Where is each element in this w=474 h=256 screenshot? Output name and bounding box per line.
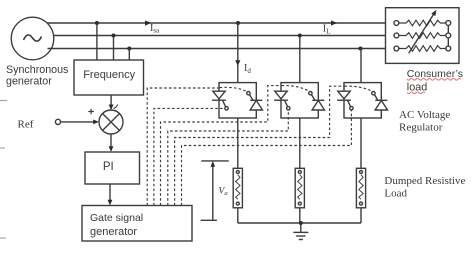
svg-text:Isa: Isa	[150, 23, 160, 35]
junction: line3 to module 3	[359, 47, 363, 51]
gate wire g4: GSG to module2 left gate	[168, 110, 288, 205]
junction: line3 tap to frequency	[127, 47, 131, 51]
wire: R1 to bus	[237, 208, 239, 223]
wire: PI to gate signal generator	[109, 184, 111, 200]
terminal: Ref input	[55, 119, 60, 124]
wire: R3 to bus	[360, 208, 362, 223]
gate wire g5: GSG to module3 right gate	[175, 86, 344, 205]
terminal circles right	[446, 21, 451, 26]
wire: line1 down to module 1	[237, 23, 239, 83]
module box 2	[281, 83, 318, 118]
wire: phase line 3	[48, 48, 395, 50]
bus: dump load common	[238, 222, 361, 224]
svg-text:generator: generator	[90, 226, 137, 238]
consumer load box	[386, 8, 460, 64]
sine symbol	[24, 35, 42, 41]
module box 3	[344, 83, 381, 118]
wire: R2 to bus	[299, 208, 301, 223]
gate wire g2: GSG to module1 left gate	[154, 108, 225, 205]
dump resistor R3	[356, 168, 365, 208]
thyristor T3b (right, pointing up)	[375, 99, 387, 101]
wire: phase line 1	[47, 22, 394, 24]
current arrow IL	[331, 20, 337, 25]
svg-text:Id: Id	[244, 63, 251, 75]
svg-text:Ref: Ref	[18, 118, 34, 130]
junction: line1 tap to frequency	[95, 21, 99, 25]
load resistor row 3	[399, 46, 446, 52]
load resistor row 1	[399, 20, 446, 26]
svg-text:Regulator: Regulator	[399, 121, 443, 133]
svg-text:Load: Load	[384, 187, 407, 199]
PI controller box	[85, 152, 140, 184]
thyristor T1a (left, pointing down)	[213, 91, 225, 99]
svg-text:Gate signal: Gate signal	[90, 212, 143, 224]
plus sign at summer	[88, 109, 94, 115]
svg-text:PI: PI	[103, 161, 114, 173]
Va dimension line	[212, 165, 214, 221]
svg-text:IL: IL	[323, 24, 331, 36]
spellcheck squiggles	[407, 78, 461, 93]
variable-load arrow	[409, 15, 434, 54]
svg-text:Dumped Resistive: Dumped Resistive	[384, 175, 465, 187]
wire: tap3 down to frequency box	[128, 49, 130, 61]
dump resistor R1	[233, 168, 242, 208]
wire: module1 to dump resistor R1	[237, 118, 239, 168]
gate wire g3: GSG to module2 right gate	[161, 86, 281, 206]
minus sign at summer	[114, 104, 118, 108]
thyristor module 2 (AC regulator phase b)	[274, 91, 324, 110]
gate terminal T3a	[350, 107, 353, 110]
svg-text:generator: generator	[6, 76, 52, 88]
wire: tap2 down to frequency box	[113, 36, 115, 61]
wire: module3 to dump resistor R3	[360, 118, 362, 168]
current arrow Id	[235, 60, 240, 66]
synchronous generator G1	[11, 17, 54, 60]
wire: line2 down to module 2	[299, 36, 301, 83]
left edge artifacts	[0, 101, 7, 239]
gate wire g1: GSG to module1 right gate	[147, 88, 219, 206]
frequency measurement box	[74, 60, 144, 95]
gate terminal T2a	[287, 107, 290, 110]
thyristor module 3 (AC regulator phase c)	[337, 91, 387, 110]
wire: line3 down to module 3	[360, 49, 362, 83]
junction: line2 to module 2	[298, 34, 302, 38]
gate wire g6: GSG to module3 left gate	[182, 111, 352, 206]
junction: line1 to module 1	[236, 21, 240, 25]
wire: Ref to summer	[61, 121, 94, 123]
wire: module2 to dump resistor R2	[299, 118, 301, 168]
current arrow Isa	[145, 20, 151, 25]
wire: frequency to summer	[110, 95, 112, 106]
thyristor T2a (left, pointing down)	[275, 91, 287, 99]
svg-text:Frequency: Frequency	[83, 69, 135, 81]
gate terminal T3b	[372, 92, 375, 95]
ground	[300, 223, 302, 232]
gate terminal T1b	[247, 92, 250, 95]
wire: phase line 2	[54, 35, 395, 37]
svg-text:Synchronous: Synchronous	[6, 64, 68, 76]
dump resistor R2	[295, 168, 304, 208]
wire: tap1 down to frequency box	[96, 23, 98, 60]
junction: line2 tap to frequency	[112, 34, 116, 38]
thyristor module 1 (AC regulator phase a)	[212, 91, 262, 110]
terminal circles left	[394, 21, 399, 26]
load resistor row 2	[399, 33, 446, 39]
gate terminal T1a	[225, 107, 228, 110]
module box 1	[219, 83, 256, 118]
junction: ground node	[299, 221, 303, 225]
summing junction	[99, 110, 123, 134]
gate terminal T2b	[309, 92, 312, 95]
thyristor T3a (left, pointing down)	[338, 91, 350, 99]
svg-text:Va: Va	[219, 186, 229, 197]
svg-text:AC Voltage: AC Voltage	[399, 109, 450, 121]
gate signal generator box	[82, 206, 192, 242]
bus: load right side	[447, 23, 449, 49]
wire: summer to PI	[110, 134, 112, 147]
thyristor T2b (right, pointing up)	[312, 99, 324, 101]
thyristor T1b (right, pointing up)	[250, 99, 262, 101]
